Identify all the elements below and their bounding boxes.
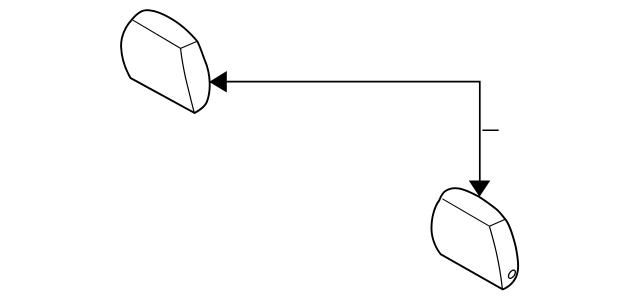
headrest bottom-right top seam line xyxy=(442,199,489,226)
guide-pin hole ellipse xyxy=(507,269,517,280)
headrest bottom-right front-right edge line xyxy=(489,226,502,289)
headrest top-left outer outline xyxy=(121,10,210,113)
headrest bottom-right outer outline xyxy=(431,188,518,289)
headrest bottom-right corner connector line xyxy=(489,219,505,226)
arrowhead pointing left into top headrest xyxy=(209,71,227,93)
arrowhead pointing down into bottom headrest xyxy=(469,181,491,197)
wire horizontal + vertical elbow xyxy=(227,82,480,182)
tick mark on vertical wire xyxy=(482,129,498,131)
headrest top-left top seam line xyxy=(133,20,181,48)
headrest top-left front-right edge line xyxy=(181,48,195,112)
headrest top-left corner connector line xyxy=(181,41,198,48)
